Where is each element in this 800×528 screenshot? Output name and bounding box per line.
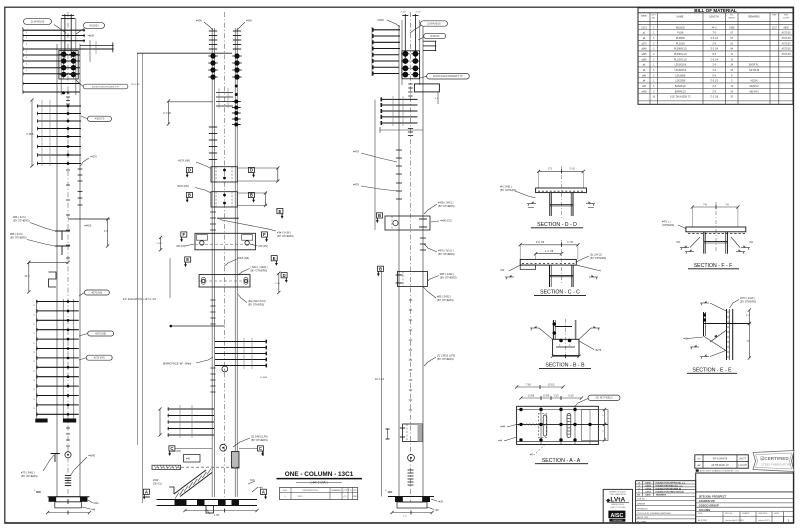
svg-text:3: 3 [26, 57, 27, 59]
left column lower ladder rungs [36, 301, 78, 303]
svg-text:(BY OTHERS): (BY OTHERS) [437, 357, 454, 361]
svg-text:#476 ( N3 G ): #476 ( N3 G ) [438, 249, 454, 253]
section A-A hatched strip [518, 423, 520, 425]
left column weld-all-around circle [65, 452, 71, 458]
section D-D right leg [570, 193, 572, 216]
svg-text:(BY OTHERS): (BY OTHERS) [437, 298, 454, 302]
middle column base pier stub [206, 506, 214, 514]
left column callout pill top-left [24, 19, 52, 25]
section flag B lower left [378, 266, 384, 271]
section A-A group [498, 383, 620, 464]
svg-text:NO.: NO. [652, 18, 656, 20]
middle column right bracket bottom [232, 452, 240, 469]
section E-E bottom weld symbol [700, 356, 709, 358]
svg-text:#86 ( 34 6 ): #86 ( 34 6 ) [10, 232, 23, 236]
svg-text:A: A [262, 490, 265, 495]
svg-text:3: 3 [26, 37, 27, 39]
middle column clip ladder between rails [216, 92, 233, 94]
title block revision rows left box [636, 481, 696, 523]
right column weld circle [408, 454, 415, 461]
left column main rails [56, 44, 58, 497]
middle column right rail bolt stack y101-124 [235, 85, 238, 88]
svg-text:ISSUED FOR APPROVAL g.a.: ISSUED FOR APPROVAL g.a. [656, 481, 687, 484]
section C-C centerline [561, 240, 563, 285]
left column grout pad [55, 502, 82, 508]
section C-C right weld leader [576, 265, 601, 271]
middle column right rail doubled [234, 28, 236, 497]
svg-text:DO NOT WELD: DO NOT WELD [596, 397, 613, 400]
left column lower doubled flange lines [62, 299, 64, 421]
right column mid plate line [380, 129, 423, 131]
middle column weld circle bottom [220, 444, 227, 451]
section flag D lower right [281, 273, 287, 278]
LVTA AISC member logo box [603, 489, 632, 523]
svg-text:#478: #478 [353, 183, 359, 187]
section E-E weld arrow mid [714, 335, 717, 338]
middle column bracket plate D lower [211, 192, 237, 207]
svg-text:=#6 (P9): =#6 (P9) [176, 245, 186, 248]
svg-text:F: F [263, 232, 266, 237]
left column upper stub rails [64, 14, 66, 58]
svg-text:A992: A992 [783, 26, 789, 29]
svg-text:(BY OTHERS): (BY OTHERS) [277, 234, 294, 238]
svg-text:SECTION - D - D: SECTION - D - D [537, 222, 577, 228]
middle column base right leaders [252, 487, 258, 492]
svg-text:E: E [186, 257, 189, 262]
svg-text:FIT-A 04/4/76: FIT-A 04/4/76 [713, 458, 728, 461]
svg-text:11: 11 [33, 333, 35, 335]
svg-text:#400: #400 [246, 19, 252, 23]
svg-text:11: 11 [33, 389, 35, 391]
middle column left rail pair [211, 28, 213, 497]
section flag E right mid [277, 209, 283, 214]
bottom border line [5, 522, 794, 524]
BOM body rows [638, 23, 793, 25]
svg-text:a365: a365 [641, 59, 647, 61]
section E-E horizontal member [704, 323, 751, 325]
left column centerline ticks below splice [67, 91, 70, 94]
svg-text:QTY: QTY [343, 490, 348, 492]
svg-text:a400: a400 [641, 91, 647, 93]
middle column shaft ticks below brackets [210, 211, 216, 213]
svg-text:11: 11 [33, 305, 35, 307]
svg-text:PL5/8X8: PL5/8X8 [676, 38, 686, 40]
svg-text:AF TB 04/06, 07: AF TB 04/06, 07 [711, 464, 729, 467]
left column splice plate rails [60, 18, 62, 95]
section B-B right flange up [575, 320, 577, 339]
svg-text:3 1/2: 3 1/2 [553, 395, 559, 397]
section A-A inner verticals [540, 406, 542, 444]
left column mid dimension line [31, 100, 33, 166]
middle column view group [123, 12, 294, 517]
svg-text:BILL OF MATERIAL: BILL OF MATERIAL [694, 8, 737, 13]
svg-text:a345: a345 [641, 54, 647, 56]
section A-A dim line top [517, 386, 563, 388]
svg-text:F: F [183, 232, 186, 237]
svg-text:#86 ( 34 6 ): #86 ( 34 6 ) [13, 215, 26, 219]
section C-C left step [520, 265, 535, 269]
middle column dashed mid line bottom [156, 466, 239, 468]
svg-text:#276 (N5): #276 (N5) [95, 332, 106, 335]
right column below-rung tick cluster [408, 128, 413, 130]
section F-F plate [686, 227, 746, 232]
svg-text:(BY OTHERS): (BY OTHERS) [21, 474, 38, 478]
left column base left tick [36, 491, 41, 493]
svg-text:GOLDEN VW: GOLDEN VW [699, 499, 716, 503]
left column lower-left dimension [29, 261, 68, 263]
svg-text:W10X33: W10X33 [430, 35, 440, 38]
svg-text:3: 3 [26, 44, 27, 46]
svg-text:11: 11 [33, 352, 35, 354]
right column base leaders [431, 499, 437, 501]
svg-text:12/03: 12/03 [645, 491, 651, 493]
svg-text:10'-1 3/4: 10'-1 3/4 [375, 378, 385, 381]
svg-text:(BY OTHERS): (BY OTHERS) [10, 236, 27, 240]
section A-A dim line second [521, 397, 582, 399]
svg-text:=#3A: =#3A [438, 501, 444, 504]
svg-text:E: E [279, 209, 282, 214]
right column mid-lower bracket dim [387, 429, 389, 439]
left column top connection rungs [23, 29, 86, 31]
svg-text:2 1/2: 2 1/2 [416, 12, 422, 14]
svg-text:2'-2 1/8: 2'-2 1/8 [710, 97, 718, 99]
svg-text:#86 ( 3432 ): #86 ( 3432 ) [440, 272, 454, 276]
section A-A bolts [519, 408, 522, 411]
left column lower ladder left dimension line [35, 300, 37, 418]
right column left long dim line [381, 272, 383, 497]
section A-A right box [582, 410, 609, 441]
svg-text:A572-50: A572-50 [782, 48, 791, 51]
BOM header row [638, 20, 793, 22]
right column mid ticks 2 [396, 182, 402, 184]
section C-C dim line upper [520, 244, 578, 246]
svg-text:QTY: QTY [652, 15, 657, 17]
svg-text:11: 11 [33, 361, 35, 363]
svg-text:PL1/2X3 1/2: PL1/2X3 1/2 [674, 59, 687, 61]
section D-D top plate [536, 188, 587, 193]
svg-text:2L4X4X5/16: 2L4X4X5/16 [31, 20, 45, 23]
svg-text:(BY OTHERS): (BY OTHERS) [590, 257, 606, 260]
right column splice plate rails [401, 20, 403, 85]
svg-text:E70XX ELECTRODES TYP: E70XX ELECTRODES TYP [92, 86, 120, 88]
section E-E top weld symbol [700, 302, 709, 304]
svg-text:SHOP FL.: SHOP FL. [749, 65, 760, 67]
middle column right rung group [215, 341, 267, 343]
middle column brace bottom clip [169, 487, 174, 494]
svg-text:STEEL FABRICATOR: STEEL FABRICATOR [761, 463, 791, 467]
svg-text:3: 3 [26, 64, 27, 66]
section D-D group [500, 166, 595, 228]
section E-E left post [703, 312, 705, 336]
section C-C web lines [550, 275, 574, 277]
left column callout pill top-right [84, 23, 105, 29]
section flag F left [181, 232, 187, 237]
svg-text:checked by B. FORE: checked by B. FORE [725, 520, 744, 522]
svg-text:WGHT: WGHT [729, 18, 736, 20]
right column center sparse ticks [409, 299, 412, 301]
svg-text:(1): (1) [344, 496, 347, 498]
middle column left rail tick stack y126-160 [209, 126, 217, 128]
svg-text:L3X3X5/16: L3X3X5/16 [675, 70, 687, 72]
svg-text:PL5/8X4 1/2: PL5/8X4 1/2 [674, 54, 687, 56]
right column lower rung group [381, 98, 418, 100]
right column upper bracket [414, 84, 439, 92]
title block field rows [636, 499, 696, 501]
svg-text:DRAWN: DRAWN [637, 503, 646, 506]
svg-text:2%/77: 2%/77 [739, 458, 746, 461]
svg-text:L3X2X5/8: L3X2X5/8 [675, 81, 686, 83]
section A-A slot left dashed [539, 414, 547, 438]
section F-F lower weld marks [685, 251, 694, 253]
svg-text:11: 11 [33, 371, 35, 373]
svg-text:REV. No:: REV. No: [725, 513, 733, 515]
left column lower callout pills [84, 290, 109, 295]
section C-C plate [520, 259, 576, 265]
svg-text:a346: a346 [641, 49, 647, 51]
svg-text:D: D [250, 168, 253, 173]
right column left rung dim line [371, 27, 373, 76]
svg-text:4345: 4345 [353, 496, 359, 498]
svg-text:=#108: =#108 [88, 36, 95, 38]
svg-text:=#426: =#426 [84, 224, 92, 228]
svg-text:REMARKS: REMARKS [748, 16, 760, 19]
section flag A right [260, 489, 266, 494]
svg-text:C: C [259, 446, 262, 451]
section D-D left weld symbol [527, 203, 536, 205]
BOM title row [638, 12, 793, 14]
section flag D left upper [186, 167, 192, 172]
svg-text:#276 (N6): #276 (N6) [92, 291, 103, 294]
svg-text:11: 11 [33, 324, 35, 326]
middle column bracket B dimension right [237, 192, 267, 194]
svg-text:1 3/4: 1 3/4 [214, 514, 220, 517]
svg-text:1217: 1217 [772, 27, 778, 29]
section B-B centerline [564, 319, 566, 357]
section C-C left weld leader [509, 265, 520, 271]
left column top right dim line [89, 40, 91, 62]
svg-text:#85 ( 3432 ): #85 ( 3432 ) [437, 295, 451, 299]
section flag C right [257, 446, 263, 451]
section E-E right dim line [748, 310, 750, 324]
svg-text:L3X3X5/16: L3X3X5/16 [675, 65, 687, 67]
section A-A center horizontal [517, 423, 608, 425]
middle column line to right C flag [239, 448, 257, 450]
section D-D dimension line [539, 170, 584, 172]
svg-text:column 13C1: column 13C1 [758, 520, 771, 522]
svg-text:#405 ( 3431 ): #405 ( 3431 ) [438, 201, 454, 205]
section B-B right weld symbol [591, 327, 600, 329]
svg-text:1/16" DIA A325N TC: 1/16" DIA A325N TC [670, 96, 691, 99]
svg-text:10'-2: 10'-2 [24, 275, 30, 278]
svg-text:11: 11 [33, 399, 35, 401]
section A-A right dim [604, 410, 606, 425]
svg-text:1458: 1458 [729, 27, 735, 29]
middle column mid dimension line left [170, 325, 225, 327]
section E-E diagonal leaders [704, 336, 727, 351]
middle column left extension line pair [137, 53, 139, 445]
section B-B group [530, 319, 602, 369]
left column below-splice short rungs [23, 83, 81, 85]
right column heavy tick below bracket [420, 237, 426, 239]
svg-text:11: 11 [33, 380, 35, 382]
section E-E group [683, 297, 756, 374]
svg-text:2'-2: 2'-2 [548, 168, 553, 171]
svg-text:PL1/2X9: PL1/2X9 [676, 43, 686, 45]
svg-text:REF: REF [772, 15, 777, 17]
svg-text:=#4A: =#4A [93, 502, 99, 505]
svg-text:E70XX ELECTRODES TYP: E70XX ELECTRODES TYP [433, 75, 463, 78]
section flag E lower right [271, 256, 277, 261]
svg-text:11: 11 [33, 343, 35, 345]
svg-text:( 5#3 ) ( 3432 ): ( 5#3 ) ( 3432 ) [251, 265, 268, 269]
section F-F dim line [692, 206, 738, 208]
svg-text:DESCRIPTION: DESCRIPTION [303, 490, 318, 492]
svg-text:NO.: NO. [637, 495, 641, 497]
svg-text:=#44: =#44 [500, 426, 506, 429]
svg-text:=#6 (P9): =#6 (P9) [258, 245, 268, 248]
middle column bottom-left tick [145, 496, 150, 498]
middle column shaft ticks lower [210, 367, 215, 369]
svg-text:3: 3 [26, 51, 27, 53]
right column grout pad [397, 502, 427, 508]
title block company area divider [696, 491, 794, 493]
svg-text:13C1: 13C1 [297, 496, 303, 498]
svg-text:AS FORM: AS FORM [698, 519, 707, 522]
section A-A slot right [567, 414, 571, 438]
svg-text:1'-0 1/4: 1'-0 1/4 [710, 59, 718, 61]
svg-text:E: E [273, 256, 276, 261]
right column base plate [388, 496, 434, 498]
middle column circled mark 1 [222, 366, 228, 372]
section F-F group [662, 202, 754, 269]
svg-text:A572-50: A572-50 [782, 42, 791, 45]
svg-text:SECTION - A - A: SECTION - A - A [542, 458, 581, 464]
svg-text:(BY OTHERS): (BY OTHERS) [13, 219, 30, 223]
left column base dimension line [48, 512, 90, 514]
middle column right rail top tick-and-dot stack [233, 30, 241, 32]
svg-text:DWG:: DWG: [698, 513, 704, 515]
svg-text:L3X3X5/8: L3X3X5/8 [675, 75, 686, 77]
svg-text:SECTION - F - F: SECTION - F - F [694, 263, 733, 269]
middle column bracket plate D upper [211, 167, 237, 182]
section A-A outer plate [517, 406, 599, 444]
svg-text:(BY OTHERS): (BY OTHERS) [251, 269, 268, 273]
section D-D right weld symbol [586, 203, 595, 205]
section F-F centerline [715, 202, 717, 252]
svg-text:5 SPA: 5 SPA [26, 132, 33, 136]
svg-text:(BY OTHERS): (BY OTHERS) [440, 276, 457, 280]
svg-text:4 BOLTS: 4 BOLTS [95, 118, 105, 121]
svg-text:ONE - COLUMN - 13C1: ONE - COLUMN - 13C1 [285, 471, 354, 478]
svg-text:A: A [145, 490, 148, 495]
svg-text:31'-4 7/8: 31'-4 7/8 [131, 84, 140, 86]
svg-text:D: D [283, 273, 286, 278]
svg-text:SECTION - B - B: SECTION - B - B [545, 363, 585, 369]
drawing title ONE - COLUMN - 13C1 [277, 471, 363, 484]
svg-text:1'-10: 1'-10 [569, 168, 575, 171]
svg-text:(BY OTHERS): (BY OTHERS) [251, 438, 268, 442]
svg-text:AUTO SHOP DRAWING SYSTEM BY ,: AUTO SHOP DRAWING SYSTEM BY , LTD. [700, 470, 740, 473]
left column centerline [67, 12, 69, 497]
svg-text:13C1: 13C1 [641, 27, 647, 29]
svg-text:10 1/2: 10 1/2 [548, 383, 555, 386]
svg-text:SITE/JOB: PROSPECT: SITE/JOB: PROSPECT [699, 494, 727, 498]
left column view group [10, 12, 128, 515]
svg-text:=#4: =#4 [259, 487, 264, 490]
svg-text:3: 3 [26, 32, 27, 34]
left column below-ladder center bolts [66, 427, 70, 429]
svg-text:=#276: =#276 [90, 156, 97, 159]
svg-text:3'-2 1/4: 3'-2 1/4 [710, 49, 718, 51]
svg-text:NO ITEM: NO ITEM [637, 521, 646, 523]
right column base left dim [388, 491, 392, 493]
svg-text:01/04: 01/04 [645, 487, 651, 490]
svg-text:☑CERTIFIED: ☑CERTIFIED [760, 456, 789, 461]
svg-text:B: B [379, 267, 382, 272]
left column right-side angle rungs [80, 45, 114, 47]
middle column left rail top tick-and-dot stack [209, 30, 217, 32]
left column top-left dimension line [22, 27, 24, 93]
svg-text:COLUMN: COLUMN [699, 508, 711, 512]
middle column plate detail rect [184, 455, 201, 463]
svg-text:(7) L3425 (LP5): (7) L3425 (LP5) [437, 354, 455, 358]
right column splice pill [427, 73, 470, 79]
svg-text:MARK: MARK [641, 15, 648, 18]
svg-text:2'-0 7/8: 2'-0 7/8 [536, 241, 545, 244]
svg-text:#46: #46 [186, 458, 191, 461]
title block bottom cells [696, 515, 794, 517]
middle column leader to 5+56 callout [217, 217, 239, 219]
middle column diagonal leader to weld [248, 481, 255, 484]
svg-text:#3# ( 5+56 ): #3# ( 5+56 ) [277, 231, 291, 235]
svg-text:#405 (N6): #405 (N6) [238, 256, 250, 260]
section flag E left lower [185, 257, 191, 262]
left column splice callout pill [83, 84, 128, 89]
svg-text:W10X33: W10X33 [89, 24, 99, 27]
svg-text:(BY OTHERS): (BY OTHERS) [248, 303, 264, 306]
svg-text:(BY OTHERS): (BY OTHERS) [438, 252, 455, 256]
svg-text:B: B [188, 193, 191, 198]
svg-text:2L4X4X5/16: 2L4X4X5/16 [427, 22, 441, 25]
section flag F right [261, 232, 267, 237]
svg-text:7 1/8: 7 1/8 [525, 383, 531, 386]
revision approval table [695, 455, 749, 468]
section B-B cross line [555, 326, 572, 328]
svg-text:CERTIFIED: CERTIFIED [612, 520, 623, 522]
svg-text:SECTION - C - C: SECTION - C - C [540, 290, 580, 296]
section F-F left weld [680, 247, 689, 249]
certified fabricator stamp [753, 451, 794, 472]
right column anchor bolt stack [408, 469, 414, 471]
section D-D centerline [560, 166, 562, 218]
svg-text:SECTION - E - E: SECTION - E - E [692, 368, 732, 374]
section flag B right [248, 192, 254, 197]
svg-text:=#46 (F6): =#46 (F6) [170, 450, 181, 453]
right column main rails [398, 25, 400, 497]
svg-text:W10X33: W10X33 [676, 27, 686, 29]
section A-A do-not-weld pill [588, 395, 620, 400]
revision history rows [636, 483, 696, 485]
svg-text:(TOOL) A. M. (OM AWS) TANTE/AL: (TOOL) A. M. (OM AWS) TANTE/ALL [637, 512, 672, 515]
svg-text:TTL.: TTL. [730, 15, 735, 17]
left column right side bracket ticks [78, 168, 83, 170]
left column base plate [48, 496, 90, 498]
section C-C group [500, 240, 606, 296]
section F-F legs [703, 232, 705, 254]
svg-text:10 SPA: 10 SPA [260, 376, 267, 379]
svg-text:2'-0: 2'-0 [104, 230, 109, 233]
svg-text:=#8: =#8 [91, 509, 96, 512]
